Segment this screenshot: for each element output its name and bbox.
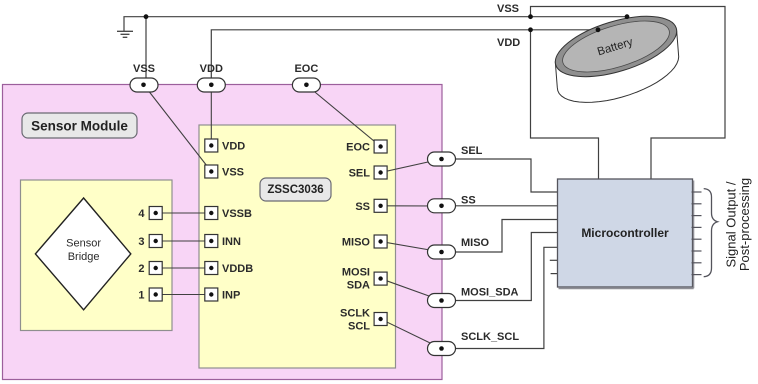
wire MISO to microcontroller [442,220,558,253]
chip pin VDD [205,139,245,153]
svg-text:SCLK: SCLK [340,308,370,320]
wire VSS terminal drop [145,17,147,80]
wire VDD loop to microcontroller [531,30,599,180]
ZSSC3036 chip box [199,125,396,368]
terminal SCLK_SCL [428,342,456,356]
wire ground to VSS rail [124,17,627,32]
svg-text:Sensor Module: Sensor Module [31,119,128,134]
terminal MISO [428,245,456,259]
chip pin INP [205,288,241,302]
chip pin SS [355,199,387,213]
svg-text:MISO: MISO [342,237,371,249]
svg-text:VDD: VDD [200,63,223,75]
svg-text:SCL: SCL [348,321,370,333]
wire VSS terminal to chip VSS pin [144,85,211,172]
sensor bridge box [21,180,173,331]
sensor bridge diamond [35,198,130,310]
svg-text:INN: INN [222,236,241,248]
chip pin VSS [205,165,244,179]
stub pin microcontroller left 2 [551,273,558,275]
terminal SEL [428,152,456,166]
svg-text:SS: SS [355,201,370,213]
junction VSS/ground [144,14,149,19]
svg-text:SEL: SEL [349,168,371,180]
microcontroller right pins [692,192,702,275]
svg-text:SEL: SEL [461,145,483,157]
wire VDD terminal to chip VDD pin [210,85,212,146]
svg-text:Post-processing: Post-processing [737,178,752,271]
svg-text:4: 4 [138,208,145,220]
wire bridge pin4 to VSSB [156,212,212,214]
svg-text:EOC: EOC [346,142,370,154]
wire chip SCLK to SCLK_SCL terminal [381,319,442,349]
svg-text:3: 3 [138,236,144,248]
svg-text:Sensor: Sensor [66,238,101,250]
battery [548,4,683,102]
svg-text:1: 1 [138,290,144,302]
stub pin microcontroller left 1 [550,259,558,261]
microcontroller U1 [558,179,694,288]
junction battery negative [625,14,630,19]
svg-text:SDA: SDA [347,280,370,292]
junction VSS loop [528,14,533,19]
wire chip MISO to MISO terminal [381,242,442,253]
svg-text:2: 2 [138,263,144,275]
wire SCLK_SCL to microcontroller [442,247,558,348]
terminal SS [428,199,456,213]
wire SEL to microcontroller [442,159,558,192]
svg-text:VDDB: VDDB [222,263,253,275]
junction battery positive [596,27,601,32]
svg-text:VSSB: VSSB [222,208,252,220]
bridge pin 3 [138,235,162,249]
label signal output / post-processing [724,178,753,271]
chip pin SCLK/SCL [340,308,387,333]
wire chip MOSI to MOSI_SDA terminal [381,279,442,301]
sensor module enclosure [3,85,443,380]
wire bridge pin3 to INN [156,240,212,242]
chip pin MOSI/SDA [342,267,387,292]
svg-text:SCLK_SCL: SCLK_SCL [461,331,519,343]
svg-text:SS: SS [461,195,476,207]
brace signal output [704,189,718,277]
wire bridge pin1 to INP [156,294,212,296]
wire EOC terminal to chip EOC pin [306,85,380,147]
wire SS to microcontroller [442,205,558,207]
junction VDD loop [528,27,533,32]
svg-text:ZSSC3036: ZSSC3036 [267,184,323,196]
wire VDD from terminal to battery [211,30,598,80]
svg-text:INP: INP [222,290,240,302]
svg-text:VSS: VSS [133,63,155,75]
ground [117,31,133,37]
svg-text:VSS: VSS [222,167,244,179]
wire chip SS to SS terminal [381,205,442,207]
wire bridge pin2 to VDDB [156,267,212,269]
bridge pin 1 [138,288,162,302]
chip pin MISO [342,235,387,249]
bridge pin 4 [138,207,162,221]
svg-text:VDD: VDD [222,141,245,153]
svg-text:MISO: MISO [461,237,490,249]
svg-text:Microcontroller: Microcontroller [581,226,669,240]
chip pin INN [205,235,241,249]
wire VSS loop to microcontroller [531,7,726,180]
sensor module title label [22,113,137,138]
chip pin EOC [346,140,387,154]
bridge pin 2 [138,262,162,276]
chip pin VSSB [205,207,252,221]
terminal VDD [197,63,225,92]
svg-text:Bridge: Bridge [68,251,100,263]
terminal MOSI_SDA [428,294,456,308]
svg-text:MOSI: MOSI [342,267,370,279]
svg-text:MOSI_SDA: MOSI_SDA [461,287,519,299]
wire chip SEL to SEL terminal [381,159,442,173]
chip pin VDDB [205,262,253,276]
svg-text:VDD: VDD [497,37,520,49]
wire MOSI_SDA to microcontroller [442,233,558,301]
svg-text:VSS: VSS [497,3,519,15]
chip pin SEL [349,166,388,180]
svg-text:EOC: EOC [294,63,318,75]
terminal EOC [292,63,320,92]
ZSSC3036 chip label [260,178,331,201]
terminal VSS [130,63,158,92]
